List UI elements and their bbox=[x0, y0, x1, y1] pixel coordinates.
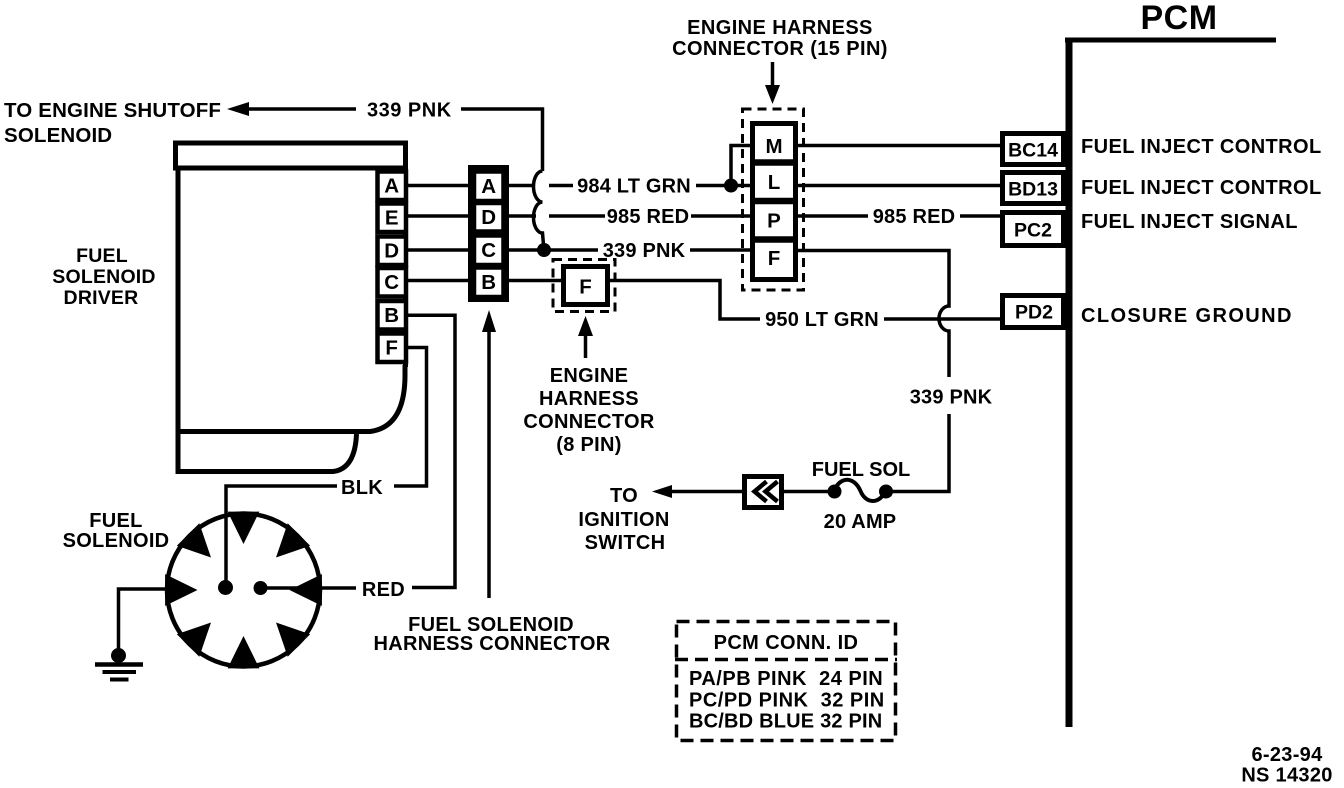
svg-text:F: F bbox=[579, 276, 592, 299]
PCM CONN ID dashed box bbox=[677, 622, 896, 741]
svg-text:339 PNK: 339 PNK bbox=[910, 387, 993, 409]
svg-text:C: C bbox=[481, 239, 496, 262]
svg-text:FUEL INJECT SIGNAL: FUEL INJECT SIGNAL bbox=[1081, 211, 1298, 233]
label ENGINE HARNESS CONNECTOR (8 PIN) bbox=[523, 365, 654, 456]
solenoid terminal dot RED bbox=[254, 581, 268, 595]
engine harness connector 8-pin dashed box bbox=[553, 260, 615, 312]
tooth right bbox=[290, 574, 322, 606]
ground symbol bbox=[95, 662, 143, 667]
svg-text:FUEL INJECT CONTROL: FUEL INJECT CONTROL bbox=[1081, 177, 1322, 199]
PCM pin BC14 bbox=[1003, 134, 1064, 165]
label ENGINE HARNESS CONNECTOR (15 PIN) bbox=[672, 17, 888, 60]
wire RED to solenoid bbox=[267, 586, 356, 590]
svg-text:A: A bbox=[384, 175, 399, 198]
wire fuse to fusible link box bbox=[784, 490, 828, 494]
fuse FUEL SOL 20 AMP bbox=[828, 485, 842, 499]
svg-text:FUEL INJECT CONTROL: FUEL INJECT CONTROL bbox=[1081, 136, 1322, 158]
driver pin E bbox=[378, 204, 407, 233]
tooth bottom-left bbox=[177, 623, 211, 657]
wire BLK to solenoid bbox=[226, 486, 337, 583]
svg-text:PD2: PD2 bbox=[1015, 302, 1053, 324]
svg-text:SOLENOID: SOLENOID bbox=[63, 530, 170, 552]
svg-text:PCM: PCM bbox=[1140, 0, 1217, 37]
svg-text:L: L bbox=[768, 171, 781, 194]
wire driver E to connector D bbox=[406, 214, 471, 218]
svg-text:985 RED: 985 RED bbox=[607, 206, 690, 228]
svg-text:BLK: BLK bbox=[341, 477, 383, 499]
PCM top line bbox=[1065, 38, 1276, 43]
wire 950 LT GRN from 8-pin F bbox=[608, 281, 760, 320]
svg-text:(8 PIN): (8 PIN) bbox=[556, 434, 621, 456]
svg-text:A: A bbox=[481, 175, 496, 198]
svg-text:BC/BD BLUE 32 PIN: BC/BD BLUE 32 PIN bbox=[689, 711, 882, 733]
PCM pin PC2 bbox=[1003, 213, 1064, 246]
svg-text:P: P bbox=[767, 210, 781, 233]
connector pin C bbox=[474, 236, 504, 266]
label TO IGNITION SWITCH bbox=[578, 485, 669, 554]
wire BLK from driver F bbox=[394, 348, 427, 487]
svg-text:RED: RED bbox=[362, 579, 405, 601]
svg-text:E: E bbox=[385, 207, 399, 230]
wire 985 RED right of twist bbox=[549, 214, 605, 218]
svg-text:SWITCH: SWITCH bbox=[585, 532, 666, 554]
svg-text:CONNECTOR: CONNECTOR bbox=[523, 411, 654, 433]
svg-text:FUEL: FUEL bbox=[76, 245, 128, 267]
wire 985 RED to PC2 bbox=[960, 214, 1001, 218]
wire connector B to 8-pin F bbox=[507, 279, 564, 283]
svg-text:D: D bbox=[384, 240, 399, 263]
svg-text:TO: TO bbox=[610, 485, 638, 507]
engine harness connector 8-pin F box bbox=[564, 267, 608, 305]
svg-text:339 PNK: 339 PNK bbox=[367, 100, 452, 122]
engine harness connector 15-pin dashed box bbox=[743, 109, 804, 290]
label FUEL SOLENOID HARNESS CONNECTOR bbox=[374, 614, 611, 655]
driver pin A bbox=[378, 172, 407, 201]
fuel solenoid driver top bar bbox=[176, 143, 406, 168]
driver column right edge bbox=[403, 168, 408, 367]
wire driver D to connector C bbox=[406, 248, 471, 252]
PCM pin PD2 bbox=[1003, 296, 1064, 328]
wire driver A to connector A bbox=[406, 184, 471, 188]
tooth left bbox=[165, 574, 197, 606]
svg-text:ENGINE: ENGINE bbox=[550, 365, 628, 387]
svg-text:FUEL SOL: FUEL SOL bbox=[812, 459, 911, 481]
driver pin D bbox=[378, 237, 407, 266]
twisted wire symbol bbox=[534, 171, 544, 245]
wire 339 PNK into F bbox=[690, 248, 753, 252]
svg-text:20 AMP: 20 AMP bbox=[824, 511, 897, 533]
pin M bbox=[752, 159, 796, 166]
ground dot bbox=[111, 648, 126, 663]
wire RED from driver B bbox=[406, 315, 455, 587]
wire F to 339 PNK vertical with hop bbox=[796, 251, 949, 378]
wire driver C to connector B bbox=[406, 279, 471, 283]
wire branch junction to M bbox=[731, 146, 753, 186]
svg-text:HARNESS CONNECTOR: HARNESS CONNECTOR bbox=[374, 633, 611, 655]
svg-text:BD13: BD13 bbox=[1008, 179, 1058, 201]
svg-text:ENGINE HARNESS: ENGINE HARNESS bbox=[687, 17, 873, 39]
fuel solenoid driver lower tab bbox=[178, 434, 357, 472]
svg-text:CLOSURE GROUND: CLOSURE GROUND bbox=[1081, 305, 1293, 327]
tooth top-left bbox=[177, 523, 211, 557]
wire 985 RED into P bbox=[691, 214, 753, 218]
pin divider P/F bbox=[752, 236, 796, 243]
driver pin C bbox=[378, 268, 407, 297]
svg-text:HARNESS: HARNESS bbox=[539, 388, 639, 410]
arrowhead to engine shutoff solenoid bbox=[227, 102, 249, 116]
svg-text:B: B bbox=[481, 271, 496, 294]
ground wire bbox=[119, 589, 168, 649]
15-pin connector outer bbox=[753, 124, 796, 280]
label TO ENGINE SHUTOFF SOLENOID bbox=[4, 99, 221, 147]
tooth top-right bbox=[276, 523, 310, 557]
arrow up to harness connector bbox=[487, 332, 491, 598]
tooth top bbox=[228, 512, 260, 544]
svg-text:PCM CONN. ID: PCM CONN. ID bbox=[714, 632, 859, 654]
wire to ignition switch bbox=[671, 490, 742, 494]
wire 339 PNK top left bbox=[246, 107, 356, 111]
svg-text:IGNITION: IGNITION bbox=[578, 509, 669, 531]
svg-text:DRIVER: DRIVER bbox=[64, 287, 139, 309]
svg-text:CONNECTOR (15 PIN): CONNECTOR (15 PIN) bbox=[672, 38, 888, 60]
label FUEL SOLENOID bbox=[63, 510, 170, 552]
wire M to BC14 bbox=[796, 144, 1001, 148]
connector pin B bbox=[474, 268, 504, 298]
svg-text:SOLENOID: SOLENOID bbox=[4, 124, 112, 147]
fuel solenoid driver body left edge bbox=[176, 168, 181, 474]
connector pin A bbox=[474, 172, 504, 202]
wire 339 PNK row bbox=[507, 248, 598, 252]
svg-text:PC2: PC2 bbox=[1014, 220, 1052, 242]
svg-text:SOLENOID: SOLENOID bbox=[52, 266, 155, 288]
wire 339 PNK to twisted drop bbox=[461, 109, 543, 171]
wire 950 LT GRN to PD2 bbox=[884, 317, 1001, 321]
svg-text:985 RED: 985 RED bbox=[873, 206, 956, 228]
svg-text:6-23-94: 6-23-94 bbox=[1251, 744, 1323, 766]
PCM CONN ID separator bbox=[675, 658, 897, 662]
tooth bottom bbox=[228, 636, 260, 668]
svg-text:D: D bbox=[481, 206, 496, 229]
svg-text:NS 14320: NS 14320 bbox=[1241, 765, 1332, 787]
driver pin B bbox=[378, 301, 407, 330]
junction dot 984 LT GRN bbox=[724, 179, 738, 193]
svg-text:C: C bbox=[384, 271, 399, 294]
PCM vertical rail bbox=[1066, 38, 1073, 727]
svg-text:PC/PD PINK 32 PIN: PC/PD PINK 32 PIN bbox=[689, 690, 885, 712]
wire L to BD13 bbox=[796, 184, 1001, 188]
wire 339 PNK down to fuse bbox=[891, 414, 949, 492]
svg-text:F: F bbox=[768, 247, 781, 270]
tooth bottom-right bbox=[276, 623, 310, 657]
svg-text:B: B bbox=[384, 304, 399, 327]
arrow to 8-pin connector bbox=[584, 335, 588, 358]
fuel solenoid driver body bottom and rounded corner bbox=[178, 365, 405, 432]
svg-text:FUEL: FUEL bbox=[89, 510, 142, 532]
svg-text:F: F bbox=[385, 337, 398, 360]
svg-text:950 LT GRN: 950 LT GRN bbox=[765, 309, 879, 331]
svg-text:BC14: BC14 bbox=[1008, 140, 1058, 162]
wire 985 RED left segment bbox=[507, 214, 536, 218]
junction dot 339 PNK bbox=[537, 243, 551, 257]
wire 984 LT GRN to junction bbox=[696, 184, 753, 188]
solenoid terminal dot BLK bbox=[218, 580, 233, 595]
arrow down to 15-pin connector bbox=[771, 62, 775, 86]
svg-text:M: M bbox=[765, 135, 782, 158]
wire 984 LT GRN right of twist bbox=[549, 184, 573, 188]
PCM pin BD13 bbox=[1003, 173, 1064, 204]
connector pin D bbox=[474, 203, 504, 232]
fuel solenoid body bbox=[167, 514, 320, 667]
svg-text:984 LT GRN: 984 LT GRN bbox=[577, 176, 691, 198]
label FUEL SOLENOID DRIVER bbox=[52, 245, 155, 309]
driver pin F bbox=[378, 334, 407, 363]
wire 984 LT GRN left segment bbox=[507, 184, 535, 188]
wire P to 985 RED right bbox=[796, 214, 868, 218]
fuel solenoid harness connector outer bbox=[471, 168, 507, 300]
fusible link box symbol bbox=[745, 477, 782, 508]
svg-text:PA/PB PINK 24 PIN: PA/PB PINK 24 PIN bbox=[689, 668, 883, 690]
svg-text:TO ENGINE SHUTOFF: TO ENGINE SHUTOFF bbox=[4, 99, 221, 122]
pin divider L/P bbox=[752, 198, 796, 205]
